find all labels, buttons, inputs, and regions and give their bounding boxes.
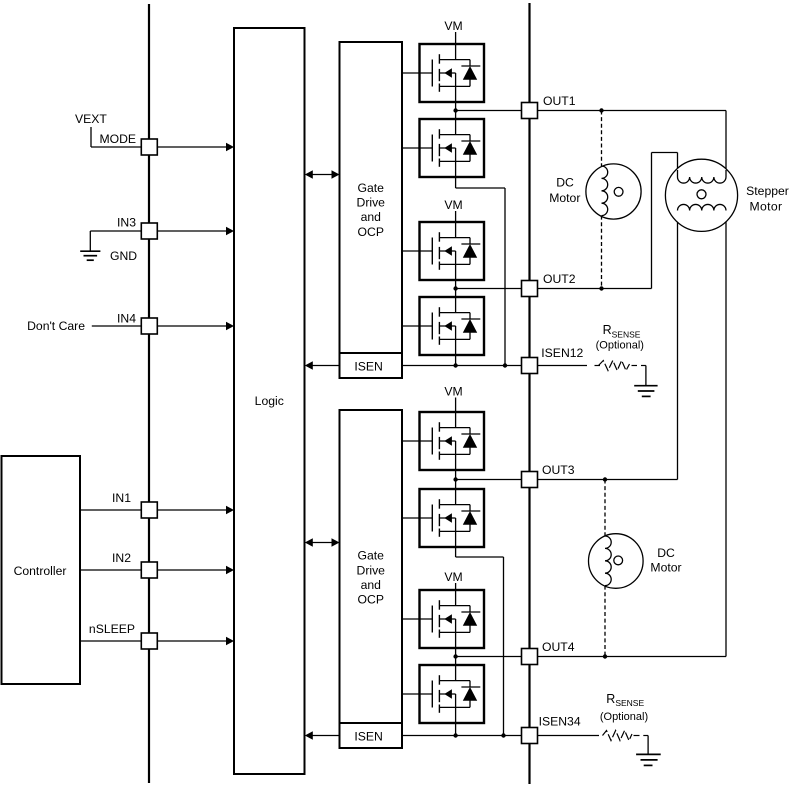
svg-text:ISEN: ISEN (354, 359, 382, 373)
svg-text:VM: VM (444, 19, 462, 33)
svg-text:OUT2: OUT2 (543, 272, 576, 286)
svg-text:Motor: Motor (650, 561, 681, 575)
svg-text:Controller: Controller (14, 564, 67, 578)
svg-text:Drive: Drive (357, 196, 386, 210)
svg-text:IN3: IN3 (117, 216, 136, 230)
svg-text:Gate: Gate (358, 181, 385, 195)
svg-text:Don't Care: Don't Care (27, 319, 85, 333)
svg-text:Drive: Drive (357, 563, 386, 577)
svg-text:IN1: IN1 (112, 491, 131, 505)
svg-text:OCP: OCP (358, 593, 384, 607)
svg-text:VEXT: VEXT (75, 112, 107, 126)
svg-text:ISEN12: ISEN12 (541, 346, 583, 360)
svg-text:Motor: Motor (750, 200, 783, 214)
svg-text:DC: DC (657, 546, 675, 560)
svg-text:OUT1: OUT1 (543, 94, 576, 108)
svg-text:and: and (361, 578, 381, 592)
svg-text:VM: VM (444, 385, 462, 399)
svg-text:Gate: Gate (358, 549, 385, 563)
svg-text:VM: VM (444, 570, 462, 584)
svg-text:GND: GND (110, 249, 137, 263)
svg-text:OCP: OCP (358, 225, 384, 239)
svg-text:nSLEEP: nSLEEP (89, 622, 135, 636)
svg-text:Stepper: Stepper (746, 184, 789, 198)
svg-text:DC: DC (556, 176, 574, 190)
svg-text:ISEN34: ISEN34 (539, 715, 581, 729)
svg-text:VM: VM (444, 198, 462, 212)
svg-text:ISEN: ISEN (354, 729, 382, 743)
svg-text:IN4: IN4 (117, 312, 136, 326)
svg-text:IN2: IN2 (112, 551, 131, 565)
svg-text:(Optional): (Optional) (596, 340, 644, 352)
svg-text:MODE: MODE (99, 132, 136, 146)
svg-text:OUT4: OUT4 (542, 640, 575, 654)
svg-text:Motor: Motor (549, 191, 580, 205)
svg-text:Logic: Logic (255, 394, 284, 408)
svg-text:(Optional): (Optional) (600, 711, 648, 723)
svg-text:and: and (361, 210, 381, 224)
svg-text:OUT3: OUT3 (542, 463, 575, 477)
